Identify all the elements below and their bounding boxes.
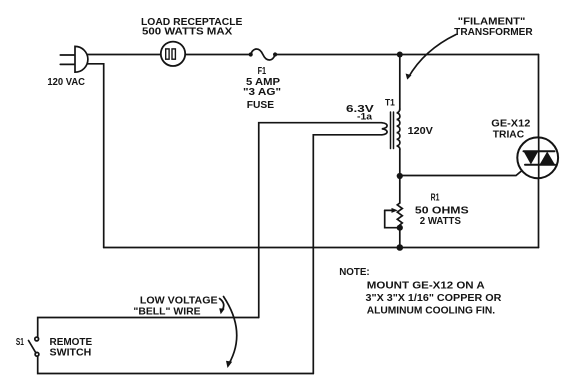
svg-text:120V: 120V — [408, 126, 434, 137]
wire secondary bottom lead going left and down — [313, 135, 382, 374]
svg-text:50 OHMS: 50 OHMS — [415, 205, 469, 216]
svg-text:LOW VOLTAGE: LOW VOLTAGE — [140, 295, 218, 306]
node junction dot R1 wiper tie — [397, 225, 403, 231]
svg-text:F1: F1 — [258, 66, 267, 77]
node junction dot R1 bottom bus — [397, 244, 404, 251]
svg-text:NOTE:: NOTE: — [339, 267, 370, 278]
svg-text:S1: S1 — [16, 337, 24, 348]
wire triac gate — [400, 165, 529, 176]
wire transformer primary top lead — [399, 55, 401, 111]
label R1 50 OHMS 2 WATTS — [415, 193, 469, 228]
arrow short from bell wire label to upper wire — [219, 299, 225, 315]
svg-text:3"X 3"X 1/16" COPPER OR: 3"X 3"X 1/16" COPPER OR — [366, 293, 503, 304]
svg-text:120 VAC: 120 VAC — [47, 77, 85, 88]
wire low voltage upper run to switch — [38, 318, 259, 338]
wire top bus from plug to right corner — [87, 54, 539, 56]
label GE-X12 TRIAC — [491, 119, 531, 141]
arrow long from bell wire label to bottom wire — [224, 297, 237, 369]
svg-text:FUSE: FUSE — [247, 100, 275, 111]
svg-text:2 WATTS: 2 WATTS — [420, 216, 462, 227]
transformer T1 primary winding 120V — [397, 109, 400, 150]
wire low voltage bottom run from switch to right riser — [38, 356, 314, 373]
svg-text:R1: R1 — [431, 193, 440, 204]
plug 120 VAC — [60, 46, 88, 72]
svg-text:MOUNT GE-X12 ON A: MOUNT GE-X12 ON A — [367, 281, 485, 292]
svg-text:TRIAC: TRIAC — [493, 130, 524, 141]
node junction dot primary bottom / gate / R1 — [397, 173, 403, 179]
note text block — [339, 267, 502, 317]
label LOW VOLTAGE "BELL" WIRE — [133, 295, 218, 317]
svg-text:REMOTE: REMOTE — [50, 337, 93, 348]
arrow from transformer label to T1 — [406, 35, 456, 80]
wire left vertical from plug lower lead to bottom bus — [87, 64, 104, 248]
wire right vertical from top corner down to triac and bottom bus — [538, 55, 540, 248]
wire transformer primary bottom lead — [399, 150, 401, 176]
label LOAD RECEPTACLE 500 WATTS MAX — [141, 17, 243, 37]
svg-text:ALUMINUM COOLING FIN.: ALUMINUM COOLING FIN. — [367, 306, 496, 317]
svg-text:GE-X12: GE-X12 — [491, 119, 531, 130]
svg-text:-1a: -1a — [357, 112, 373, 122]
wire bottom bus — [104, 247, 539, 249]
load receptacle — [161, 42, 185, 66]
wire secondary top lead going left and down — [259, 123, 382, 318]
svg-text:"FILAMENT": "FILAMENT" — [458, 16, 526, 27]
svg-text:"BELL" WIRE: "BELL" WIRE — [133, 307, 201, 318]
triac GE-X12 — [517, 137, 558, 178]
svg-text:"3 AG": "3 AG" — [243, 87, 281, 98]
transformer T1 core — [391, 112, 394, 149]
fuse F1 — [249, 49, 278, 60]
svg-text:500 WATTS MAX: 500 WATTS MAX — [142, 26, 233, 37]
switch S1 remote — [29, 337, 39, 356]
svg-text:SWITCH: SWITCH — [50, 348, 92, 359]
svg-text:TRANSFORMER: TRANSFORMER — [454, 27, 533, 38]
resistor R1 rheostat — [385, 176, 403, 248]
label F1 5 AMP "3 AG" FUSE — [243, 66, 281, 111]
label REMOTE SWITCH — [50, 337, 93, 359]
transformer T1 secondary winding 6.3V end arcs — [382, 123, 387, 135]
label "FILAMENT" TRANSFORMER — [454, 16, 533, 38]
node junction dot top bus / transformer primary — [397, 52, 403, 58]
svg-text:T1: T1 — [385, 98, 395, 109]
